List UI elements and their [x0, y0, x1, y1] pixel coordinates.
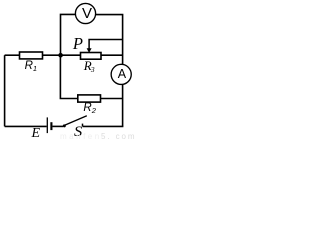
resistor R3 rheostat body: [81, 53, 102, 60]
node junction dot: [58, 53, 63, 58]
label S (switch): [74, 123, 82, 141]
wire: battery to switch pivot: [53, 125, 64, 127]
watermark left part: [60, 132, 102, 141]
switch pivot dot: [63, 124, 66, 127]
label R1: [25, 60, 37, 72]
wire: rail from R1 to R3 through node: [43, 54, 81, 56]
wire: left wall: [4, 55, 6, 126]
battery E long plate: [46, 117, 48, 133]
resistor R1: [20, 52, 43, 59]
switch fixed contact nub: [82, 124, 84, 127]
label R2: [83, 102, 95, 114]
label R3: [84, 58, 95, 74]
wire: bottom rail left of battery: [5, 125, 47, 127]
wire: voltmeter right to top-right corner, down right vertical to ammeter: [96, 15, 123, 65]
watermark right part: [101, 132, 136, 141]
resistor R2: [78, 95, 101, 102]
switch blade: [65, 116, 87, 126]
label E (battery): [32, 126, 41, 142]
wire: R2 right to right vertical: [101, 98, 123, 100]
label P (slider): [73, 34, 83, 54]
ammeter A circle: [111, 64, 131, 84]
wire: R2 branch riser: [60, 55, 77, 98]
wire: bottom rail right of switch: [83, 125, 124, 127]
battery E short plate: [50, 122, 52, 130]
label V (voltmeter): [81, 5, 94, 22]
slider arrowhead: [87, 48, 92, 53]
wire: main top rail left segment: [5, 54, 20, 56]
voltmeter V circle: [75, 3, 95, 23]
wire: ammeter bottom down to bottom rail: [122, 85, 124, 127]
wire: voltmeter riser and top wire: [61, 14, 76, 55]
wire: R3 right terminal to right vertical: [101, 54, 123, 56]
wire: slider tap wire: [89, 40, 123, 49]
label A (ammeter): [115, 67, 128, 81]
